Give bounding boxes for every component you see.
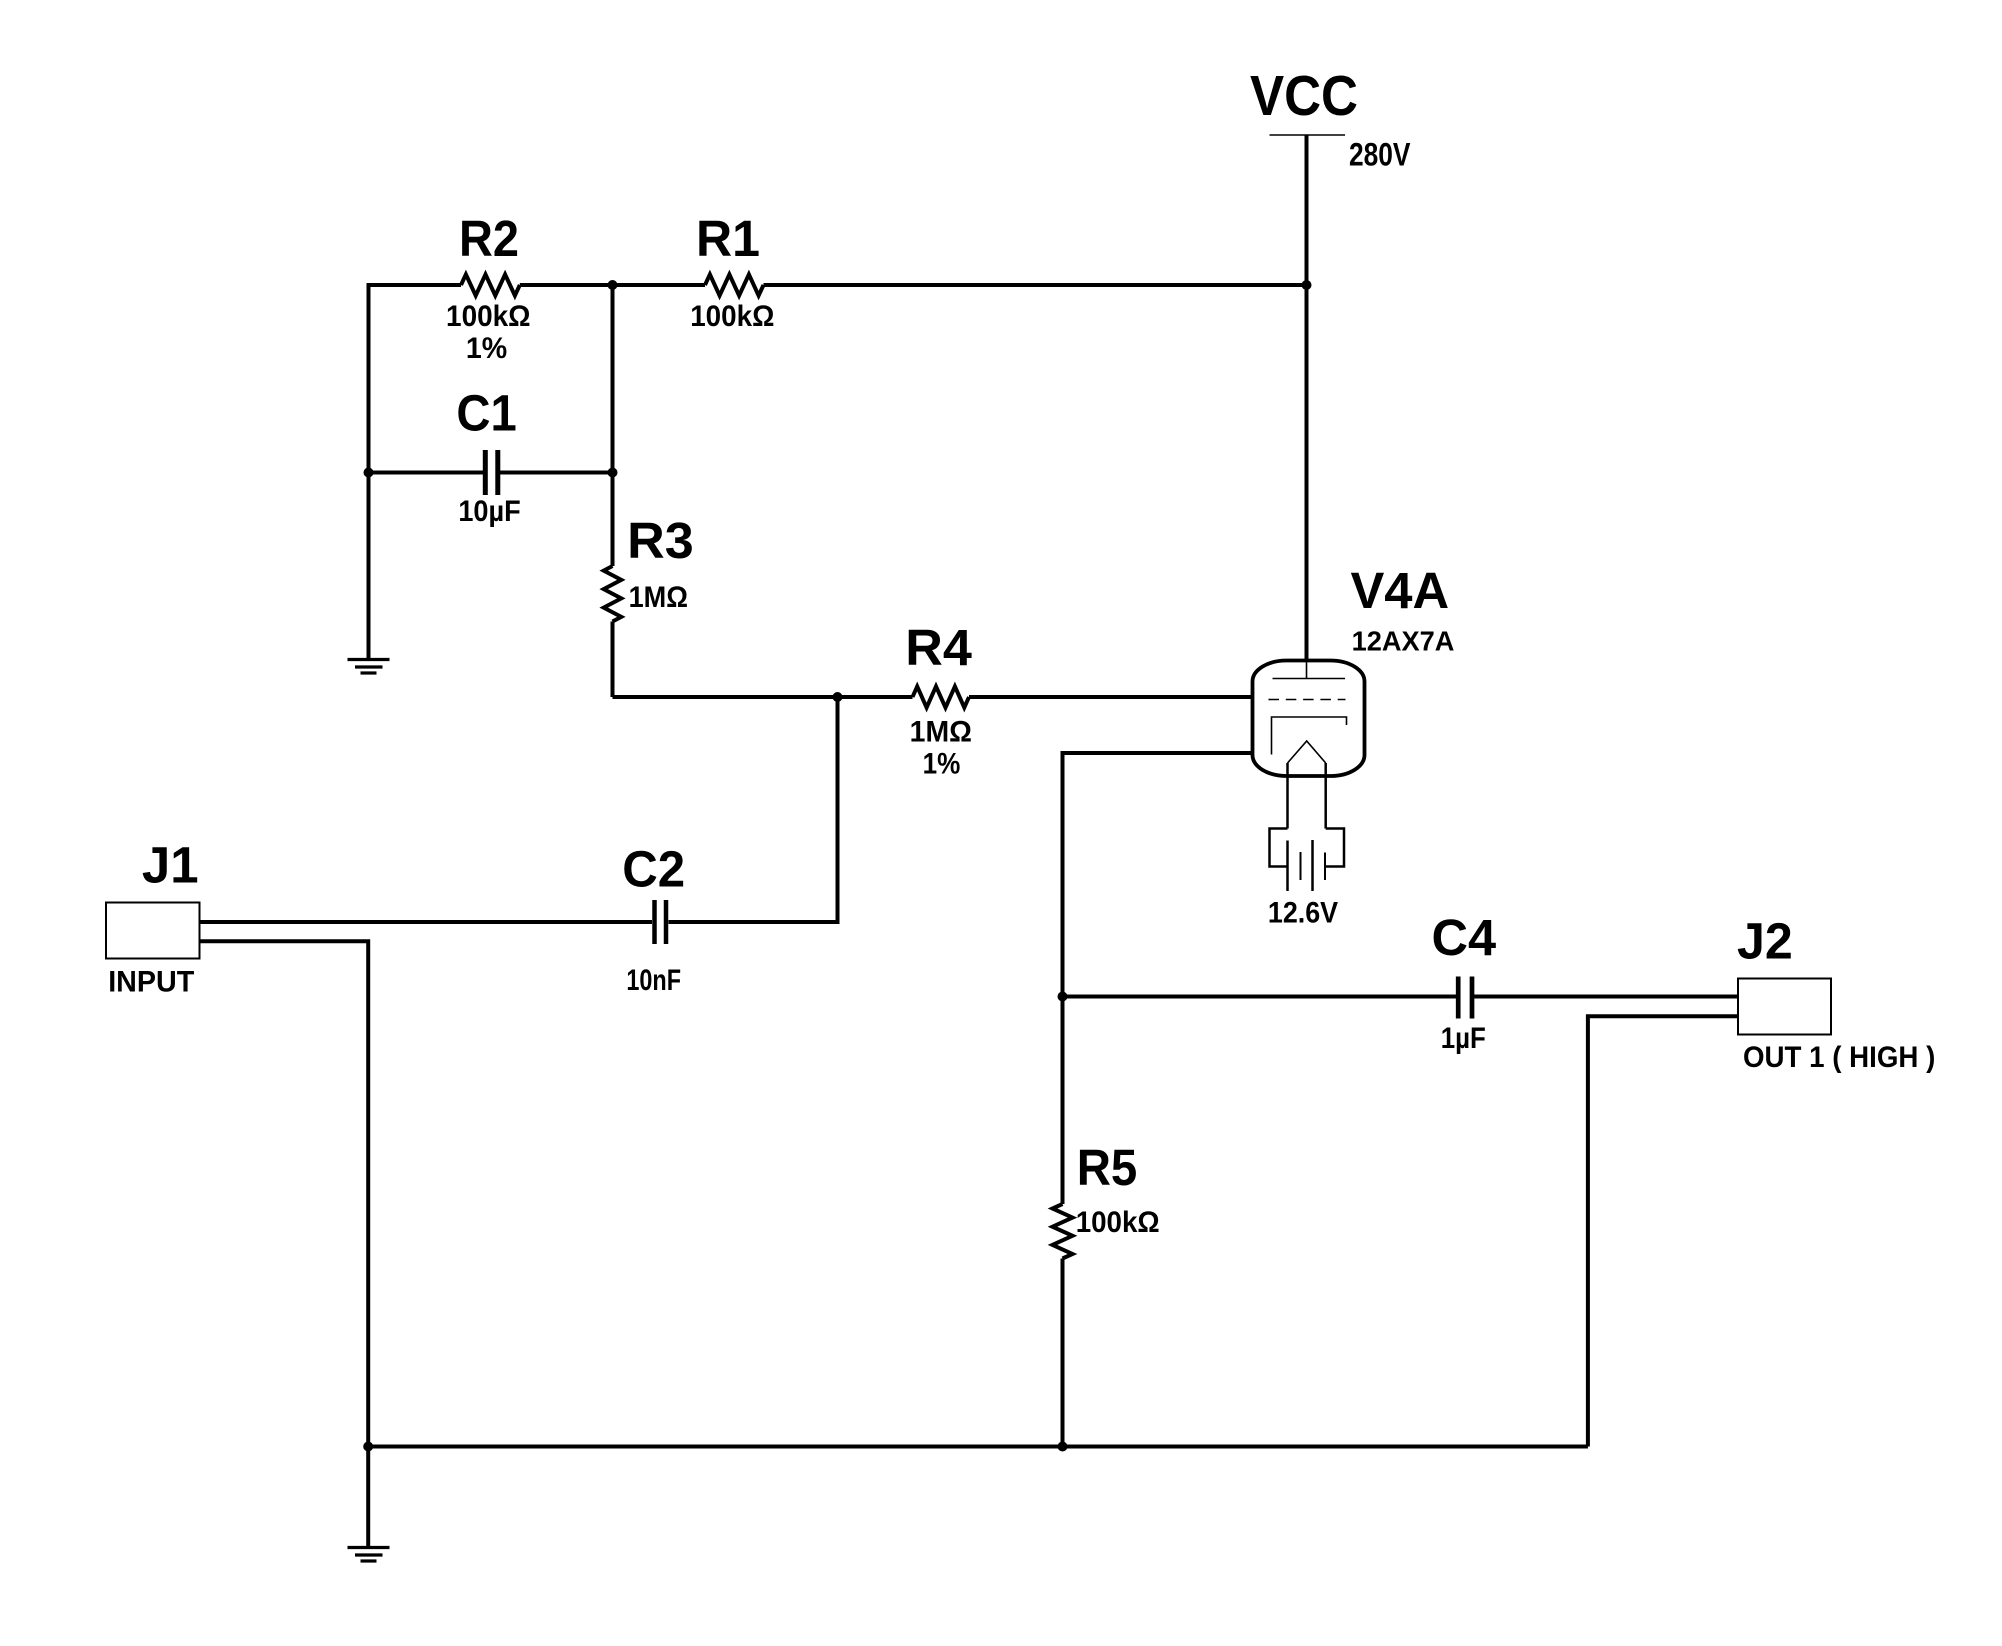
ground symbol upper left xyxy=(348,658,390,661)
wire top rail from left rail corner through R2/R1 to VCC node xyxy=(369,285,462,660)
wire VCC vertical down to tube plate xyxy=(1305,135,1309,663)
svg-text:J1: J1 xyxy=(142,836,199,893)
svg-text:10µF: 10µF xyxy=(458,495,520,528)
node dot rail R5 xyxy=(1058,1442,1068,1452)
heater connector bracket left xyxy=(1270,829,1288,867)
svg-text:100kΩ: 100kΩ xyxy=(1076,1206,1160,1239)
heater pin 1 xyxy=(1286,841,1289,892)
svg-text:INPUT: INPUT xyxy=(108,966,194,999)
resistor R3 xyxy=(604,566,622,622)
svg-text:1MΩ: 1MΩ xyxy=(629,581,688,614)
svg-text:R5: R5 xyxy=(1077,1139,1138,1196)
svg-text:1%: 1% xyxy=(466,332,507,365)
svg-text:V4A: V4A xyxy=(1350,562,1449,619)
tube heater filament xyxy=(1288,741,1326,763)
resistor R4 xyxy=(913,686,970,707)
svg-text:R2: R2 xyxy=(459,210,519,267)
tube V4A envelope xyxy=(1253,661,1365,777)
wire J1 ground lead xyxy=(200,941,369,1446)
svg-text:280V: 280V xyxy=(1349,137,1411,173)
svg-text:VCC: VCC xyxy=(1250,64,1358,128)
svg-text:R4: R4 xyxy=(905,619,972,676)
svg-text:1MΩ: 1MΩ xyxy=(910,716,972,749)
wire R1 to VCC node xyxy=(764,283,1307,287)
node dot grid junction xyxy=(833,692,843,702)
wire C1 to R3 branch xyxy=(500,471,613,475)
wire R3 branch vertical xyxy=(611,285,615,566)
tube grid (dashed) xyxy=(1269,699,1346,701)
wire cathode to output node xyxy=(1063,753,1257,1204)
svg-text:12AX7A: 12AX7A xyxy=(1352,626,1455,657)
tube plate xyxy=(1273,678,1346,680)
resistor R2 xyxy=(461,274,520,295)
heater connector bracket right xyxy=(1326,829,1344,867)
svg-text:100kΩ: 100kΩ xyxy=(446,300,531,333)
node dot R2/R1 xyxy=(608,280,618,290)
heater pin 3 xyxy=(1311,840,1314,891)
svg-text:OUT 1 ( HIGH ): OUT 1 ( HIGH ) xyxy=(1743,1041,1935,1074)
wire R5 bottom to ground rail xyxy=(1061,1259,1065,1447)
svg-text:1µF: 1µF xyxy=(1441,1022,1486,1055)
capacitor C1 xyxy=(483,450,488,495)
ground symbol bottom xyxy=(348,1546,390,1549)
resistor R5 xyxy=(1053,1204,1073,1259)
node dot VCC xyxy=(1302,280,1312,290)
heater pin 4 xyxy=(1324,853,1326,881)
svg-text:J2: J2 xyxy=(1737,913,1793,970)
node dot rail/C1 xyxy=(364,468,374,478)
wire output row to C4 xyxy=(1063,995,1457,999)
capacitor C2 xyxy=(652,900,657,944)
svg-text:100kΩ: 100kΩ xyxy=(690,300,774,333)
svg-text:12.6V: 12.6V xyxy=(1268,896,1338,929)
svg-text:1%: 1% xyxy=(923,748,961,781)
wire C2 to J1 xyxy=(200,920,653,924)
capacitor C4 xyxy=(1456,977,1461,1019)
wire R3 bottom to grid row xyxy=(611,622,615,698)
svg-text:R3: R3 xyxy=(627,512,694,569)
heater pin 2 xyxy=(1300,852,1302,880)
node dot C1/R3 xyxy=(608,468,618,478)
svg-text:C4: C4 xyxy=(1432,909,1497,966)
svg-text:10nF: 10nF xyxy=(626,964,681,997)
wire grid row to R4 xyxy=(613,695,913,699)
wire ground stem bottom left xyxy=(366,1447,370,1548)
VCC power bar xyxy=(1270,134,1346,136)
svg-text:R1: R1 xyxy=(696,210,760,267)
wire R4 to tube grid xyxy=(969,695,1257,699)
wire C1 row left segment xyxy=(369,471,484,475)
wire bottom ground rail xyxy=(368,1445,1588,1449)
tube plate lead xyxy=(1306,661,1308,679)
connector J2 xyxy=(1738,979,1831,1035)
wire between R2 and R1 xyxy=(520,283,705,287)
wire J2 ground lead xyxy=(1588,1016,1738,1446)
node dot output xyxy=(1058,992,1068,1002)
svg-text:C1: C1 xyxy=(456,385,516,442)
heater lead right xyxy=(1324,763,1327,829)
heater lead left xyxy=(1286,763,1289,829)
tube cathode xyxy=(1272,717,1347,755)
wire C4 to J2 xyxy=(1474,995,1738,999)
connector J1 xyxy=(106,903,200,959)
svg-text:C2: C2 xyxy=(622,841,685,898)
wire junction down to C2 row xyxy=(669,697,838,922)
node dot rail left xyxy=(363,1442,373,1452)
resistor R1 xyxy=(705,274,764,295)
